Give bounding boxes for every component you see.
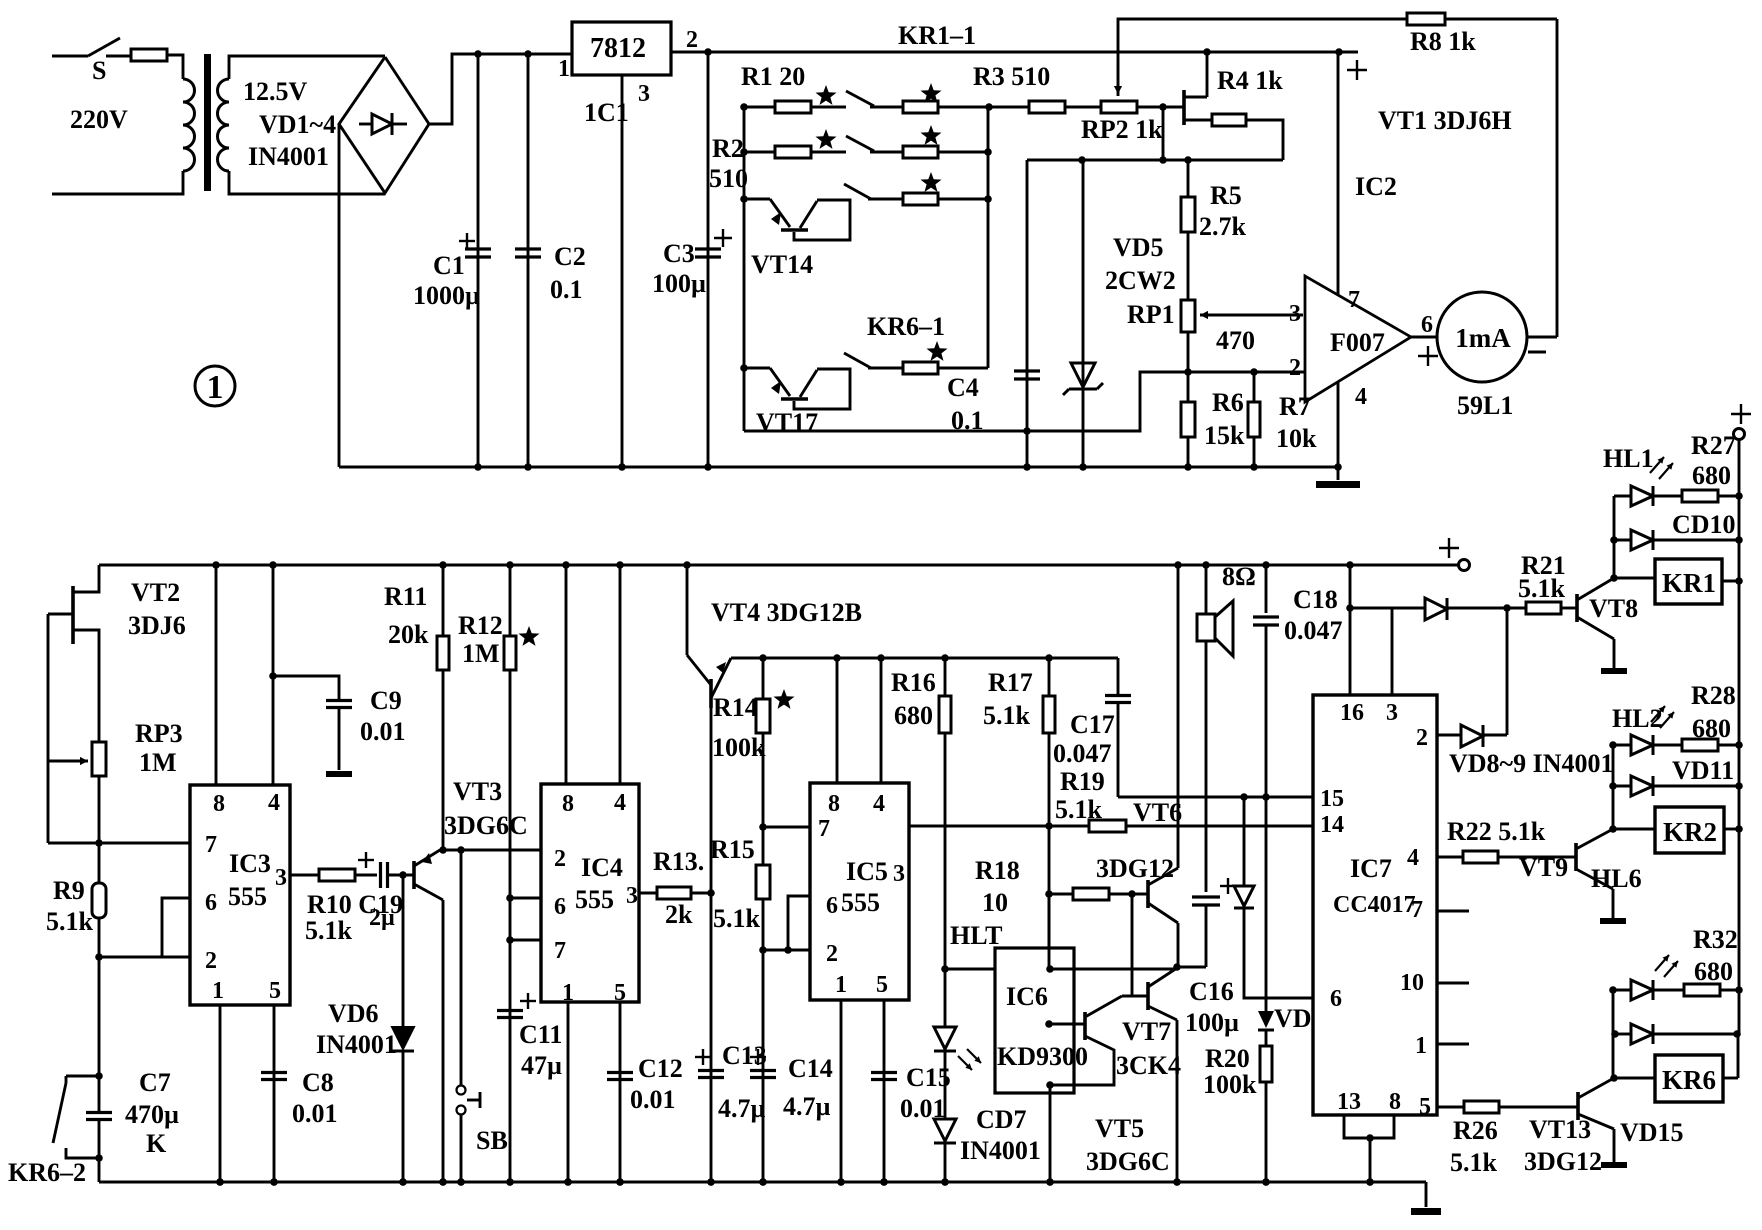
svg-text:2µ: 2µ bbox=[369, 905, 395, 931]
svg-text:1M: 1M bbox=[139, 748, 177, 777]
svg-text:555: 555 bbox=[841, 888, 880, 917]
svg-text:VD15: VD15 bbox=[1620, 1118, 1684, 1147]
svg-text:5.1k: 5.1k bbox=[1518, 574, 1566, 603]
svg-text:10: 10 bbox=[1400, 970, 1424, 996]
svg-text:15k: 15k bbox=[1204, 421, 1245, 450]
svg-text:0.047: 0.047 bbox=[1053, 739, 1112, 768]
svg-text:3CK4: 3CK4 bbox=[1116, 1051, 1181, 1080]
svg-text:HL6: HL6 bbox=[1591, 864, 1642, 893]
svg-text:R6: R6 bbox=[1212, 388, 1244, 417]
svg-text:R11: R11 bbox=[384, 582, 427, 611]
svg-text:47µ: 47µ bbox=[521, 1051, 562, 1080]
svg-text:8: 8 bbox=[1389, 1089, 1401, 1115]
svg-text:15: 15 bbox=[1320, 786, 1344, 812]
svg-text:2: 2 bbox=[686, 27, 698, 53]
svg-text:CD10: CD10 bbox=[1672, 510, 1736, 539]
svg-text:KR1–1: KR1–1 bbox=[898, 21, 976, 50]
svg-text:R5: R5 bbox=[1210, 181, 1242, 210]
svg-text:3: 3 bbox=[893, 861, 905, 887]
svg-text:2: 2 bbox=[1416, 725, 1428, 751]
svg-text:220V: 220V bbox=[70, 105, 128, 134]
svg-text:10k: 10k bbox=[1276, 424, 1317, 453]
svg-text:C9: C9 bbox=[370, 686, 402, 715]
svg-text:8Ω: 8Ω bbox=[1222, 562, 1256, 591]
svg-text:6: 6 bbox=[205, 890, 217, 916]
svg-text:100µ: 100µ bbox=[1185, 1008, 1239, 1037]
svg-text:20k: 20k bbox=[388, 620, 429, 649]
svg-text:10: 10 bbox=[982, 888, 1008, 917]
svg-text:VD8~9 IN4001: VD8~9 IN4001 bbox=[1449, 749, 1613, 778]
svg-text:6: 6 bbox=[1421, 312, 1433, 338]
svg-text:7: 7 bbox=[1348, 287, 1360, 313]
svg-text:1M: 1M bbox=[462, 639, 500, 668]
svg-text:0.01: 0.01 bbox=[630, 1085, 676, 1114]
svg-text:100k: 100k bbox=[712, 733, 766, 762]
svg-text:VT1 3DJ6H: VT1 3DJ6H bbox=[1378, 106, 1512, 135]
svg-text:1mA: 1mA bbox=[1455, 323, 1511, 353]
svg-text:3DG6C: 3DG6C bbox=[444, 811, 528, 840]
svg-text:0.01: 0.01 bbox=[360, 717, 406, 746]
svg-text:2CW2: 2CW2 bbox=[1105, 266, 1176, 295]
svg-text:4.7µ: 4.7µ bbox=[783, 1092, 831, 1121]
svg-text:KR1: KR1 bbox=[1662, 568, 1716, 598]
svg-text:13: 13 bbox=[1337, 1089, 1361, 1115]
svg-text:R32: R32 bbox=[1693, 925, 1738, 954]
svg-text:IC2: IC2 bbox=[1355, 172, 1397, 201]
svg-text:2: 2 bbox=[205, 948, 217, 974]
svg-text:4.7µ: 4.7µ bbox=[718, 1094, 766, 1123]
svg-text:VT8: VT8 bbox=[1589, 594, 1638, 623]
svg-text:R17: R17 bbox=[988, 668, 1033, 697]
svg-text:3: 3 bbox=[1289, 301, 1301, 327]
svg-text:0.01: 0.01 bbox=[292, 1099, 338, 1128]
svg-text:5.1k: 5.1k bbox=[46, 907, 94, 936]
svg-text:HLT: HLT bbox=[950, 921, 1003, 950]
svg-text:R19: R19 bbox=[1060, 767, 1105, 796]
svg-text:R1 20: R1 20 bbox=[741, 62, 805, 91]
svg-text:IC5: IC5 bbox=[846, 857, 888, 886]
svg-text:KR6–2: KR6–2 bbox=[8, 1158, 86, 1187]
svg-text:100µ: 100µ bbox=[652, 269, 706, 298]
svg-text:R12: R12 bbox=[458, 611, 503, 640]
svg-text:VD1~4: VD1~4 bbox=[259, 110, 336, 139]
svg-text:VD11: VD11 bbox=[1672, 756, 1734, 785]
svg-text:C18: C18 bbox=[1293, 585, 1338, 614]
svg-text:C3: C3 bbox=[663, 239, 695, 268]
svg-text:CC4017: CC4017 bbox=[1333, 892, 1416, 918]
svg-text:4: 4 bbox=[1355, 384, 1367, 410]
svg-text:CD7: CD7 bbox=[976, 1105, 1027, 1134]
svg-text:IC3: IC3 bbox=[229, 849, 271, 878]
svg-text:C17: C17 bbox=[1070, 710, 1115, 739]
svg-text:555: 555 bbox=[228, 882, 267, 911]
svg-text:3: 3 bbox=[638, 81, 650, 107]
svg-text:C4: C4 bbox=[947, 373, 979, 402]
svg-text:R28: R28 bbox=[1691, 681, 1736, 710]
svg-text:555: 555 bbox=[575, 885, 614, 914]
svg-text:VT7: VT7 bbox=[1122, 1017, 1171, 1046]
svg-text:R16: R16 bbox=[891, 668, 936, 697]
svg-text:5.1k: 5.1k bbox=[1055, 795, 1103, 824]
svg-text:0.1: 0.1 bbox=[550, 275, 583, 304]
svg-text:SB: SB bbox=[476, 1126, 508, 1155]
svg-text:5.1k: 5.1k bbox=[305, 916, 353, 945]
svg-text:4: 4 bbox=[268, 790, 280, 816]
svg-text:7: 7 bbox=[554, 938, 566, 964]
svg-text:8: 8 bbox=[828, 791, 840, 817]
svg-text:R9: R9 bbox=[53, 876, 85, 905]
svg-text:C13: C13 bbox=[722, 1041, 767, 1070]
svg-text:S: S bbox=[92, 56, 106, 85]
svg-text:3DJ6: 3DJ6 bbox=[128, 611, 186, 640]
svg-text:1: 1 bbox=[1415, 1033, 1427, 1059]
svg-text:2.7k: 2.7k bbox=[1199, 212, 1247, 241]
svg-text:K: K bbox=[146, 1129, 167, 1158]
svg-text:VT6: VT6 bbox=[1133, 798, 1182, 827]
svg-text:R15: R15 bbox=[710, 835, 755, 864]
svg-text:470µ: 470µ bbox=[125, 1100, 179, 1129]
svg-text:2: 2 bbox=[554, 846, 566, 872]
svg-text:470: 470 bbox=[1216, 326, 1255, 355]
svg-text:C12: C12 bbox=[638, 1054, 683, 1083]
svg-text:5: 5 bbox=[1419, 1094, 1431, 1120]
svg-text:R14: R14 bbox=[713, 693, 758, 722]
svg-text:IN4001: IN4001 bbox=[316, 1030, 397, 1059]
svg-text:KR6: KR6 bbox=[1662, 1065, 1716, 1095]
svg-text:6: 6 bbox=[826, 893, 838, 919]
svg-text:VT17: VT17 bbox=[756, 408, 818, 437]
svg-text:59L1: 59L1 bbox=[1457, 391, 1513, 420]
svg-text:7812: 7812 bbox=[590, 33, 646, 64]
svg-text:C8: C8 bbox=[302, 1068, 334, 1097]
svg-text:6: 6 bbox=[554, 894, 566, 920]
svg-text:510: 510 bbox=[709, 164, 748, 193]
svg-text:C1: C1 bbox=[433, 251, 465, 280]
svg-text:680: 680 bbox=[1692, 461, 1731, 490]
svg-text:0.047: 0.047 bbox=[1284, 616, 1343, 645]
svg-text:5: 5 bbox=[269, 978, 281, 1004]
svg-text:R4 1k: R4 1k bbox=[1217, 66, 1283, 95]
svg-text:VT4 3DG12B: VT4 3DG12B bbox=[711, 598, 862, 627]
svg-text:14: 14 bbox=[1320, 812, 1344, 838]
svg-text:IC7: IC7 bbox=[1350, 854, 1392, 883]
svg-text:1: 1 bbox=[558, 56, 570, 82]
svg-text:3: 3 bbox=[275, 865, 287, 891]
svg-text:R8 1k: R8 1k bbox=[1410, 27, 1476, 56]
svg-text:R3 510: R3 510 bbox=[973, 62, 1050, 91]
svg-text:R20: R20 bbox=[1205, 1044, 1250, 1073]
svg-text:4: 4 bbox=[614, 790, 626, 816]
svg-text:VD6: VD6 bbox=[328, 999, 379, 1028]
svg-text:3DG12: 3DG12 bbox=[1096, 854, 1174, 883]
svg-text:680: 680 bbox=[1692, 714, 1731, 743]
svg-text:680: 680 bbox=[894, 701, 933, 730]
svg-text:RP2 1k: RP2 1k bbox=[1081, 115, 1163, 144]
svg-text:R26: R26 bbox=[1453, 1116, 1498, 1145]
svg-text:1: 1 bbox=[212, 978, 224, 1004]
svg-text:C14: C14 bbox=[788, 1054, 833, 1083]
svg-text:8: 8 bbox=[213, 791, 225, 817]
svg-text:IC4: IC4 bbox=[581, 853, 623, 882]
svg-text:1: 1 bbox=[835, 972, 847, 998]
svg-text:5: 5 bbox=[876, 972, 888, 998]
svg-text:R22 5.1k: R22 5.1k bbox=[1447, 817, 1546, 846]
svg-text:RP1: RP1 bbox=[1127, 300, 1175, 329]
svg-text:F007: F007 bbox=[1330, 328, 1385, 357]
svg-text:4: 4 bbox=[1407, 845, 1419, 871]
svg-text:8: 8 bbox=[562, 791, 574, 817]
svg-text:VT5: VT5 bbox=[1095, 1114, 1144, 1143]
svg-text:2: 2 bbox=[1289, 355, 1301, 381]
svg-text:7: 7 bbox=[1411, 897, 1423, 923]
svg-text:VT13: VT13 bbox=[1529, 1115, 1591, 1144]
svg-text:0.1: 0.1 bbox=[951, 406, 984, 435]
svg-text:2k: 2k bbox=[665, 900, 693, 929]
svg-text:1: 1 bbox=[207, 369, 224, 406]
svg-text:VT2: VT2 bbox=[131, 578, 180, 607]
svg-text:6: 6 bbox=[1330, 986, 1342, 1012]
svg-text:12.5V: 12.5V bbox=[243, 77, 308, 106]
svg-text:7: 7 bbox=[818, 816, 830, 842]
svg-text:C7: C7 bbox=[139, 1068, 171, 1097]
svg-text:C16: C16 bbox=[1189, 977, 1234, 1006]
svg-text:VT3: VT3 bbox=[453, 777, 502, 806]
svg-text:4: 4 bbox=[873, 791, 885, 817]
svg-text:5.1k: 5.1k bbox=[1450, 1148, 1498, 1177]
svg-text:RP3: RP3 bbox=[135, 719, 183, 748]
svg-text:VD5: VD5 bbox=[1113, 233, 1164, 262]
svg-text:IC6: IC6 bbox=[1006, 982, 1048, 1011]
svg-text:2: 2 bbox=[826, 941, 838, 967]
svg-text:100k: 100k bbox=[1203, 1070, 1257, 1099]
svg-text:5.1k: 5.1k bbox=[983, 701, 1031, 730]
svg-text:C2: C2 bbox=[554, 242, 586, 271]
svg-text:R27: R27 bbox=[1691, 431, 1736, 460]
svg-text:VT9: VT9 bbox=[1519, 853, 1568, 882]
svg-text:680: 680 bbox=[1694, 957, 1733, 986]
svg-text:VT14: VT14 bbox=[751, 250, 813, 279]
svg-text:R2: R2 bbox=[712, 134, 744, 163]
svg-text:KR6–1: KR6–1 bbox=[867, 312, 945, 341]
svg-text:3: 3 bbox=[1386, 700, 1398, 726]
svg-text:3DG12: 3DG12 bbox=[1524, 1147, 1602, 1176]
svg-text:KD9300: KD9300 bbox=[997, 1042, 1088, 1071]
svg-text:5.1k: 5.1k bbox=[713, 904, 761, 933]
svg-text:R18: R18 bbox=[975, 856, 1020, 885]
svg-text:R13.: R13. bbox=[653, 847, 704, 876]
svg-text:3: 3 bbox=[626, 883, 638, 909]
svg-text:HL1: HL1 bbox=[1603, 444, 1654, 473]
svg-text:KR2: KR2 bbox=[1663, 817, 1717, 847]
svg-text:1000µ: 1000µ bbox=[413, 281, 480, 310]
svg-text:3DG6C: 3DG6C bbox=[1086, 1147, 1170, 1176]
svg-text:C11: C11 bbox=[519, 1020, 562, 1049]
svg-text:IN4001: IN4001 bbox=[960, 1136, 1041, 1165]
svg-text:16: 16 bbox=[1340, 700, 1364, 726]
svg-text:IN4001: IN4001 bbox=[248, 142, 329, 171]
svg-text:7: 7 bbox=[205, 832, 217, 858]
